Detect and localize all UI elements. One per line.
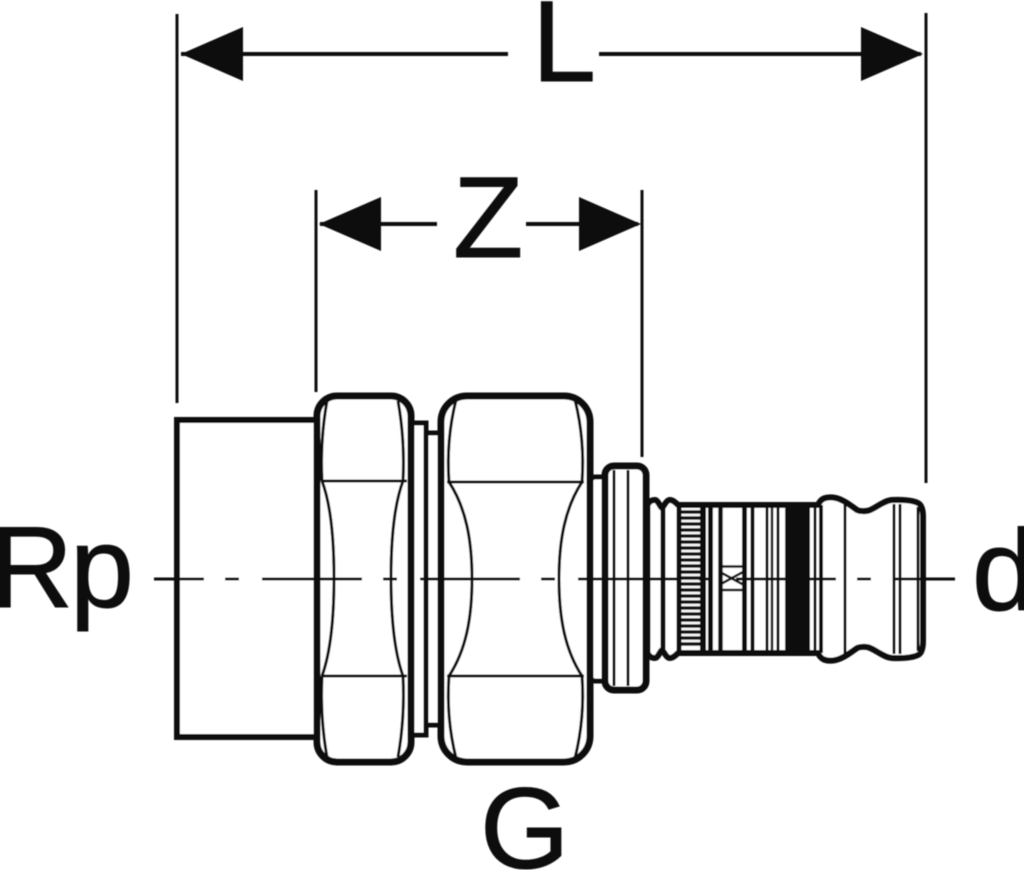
svg-text:d: d xyxy=(972,507,1024,635)
svg-text:L: L xyxy=(532,0,596,106)
svg-text:Rp: Rp xyxy=(0,504,131,632)
svg-text:Z: Z xyxy=(453,154,523,282)
svg-text:G: G xyxy=(480,765,569,870)
